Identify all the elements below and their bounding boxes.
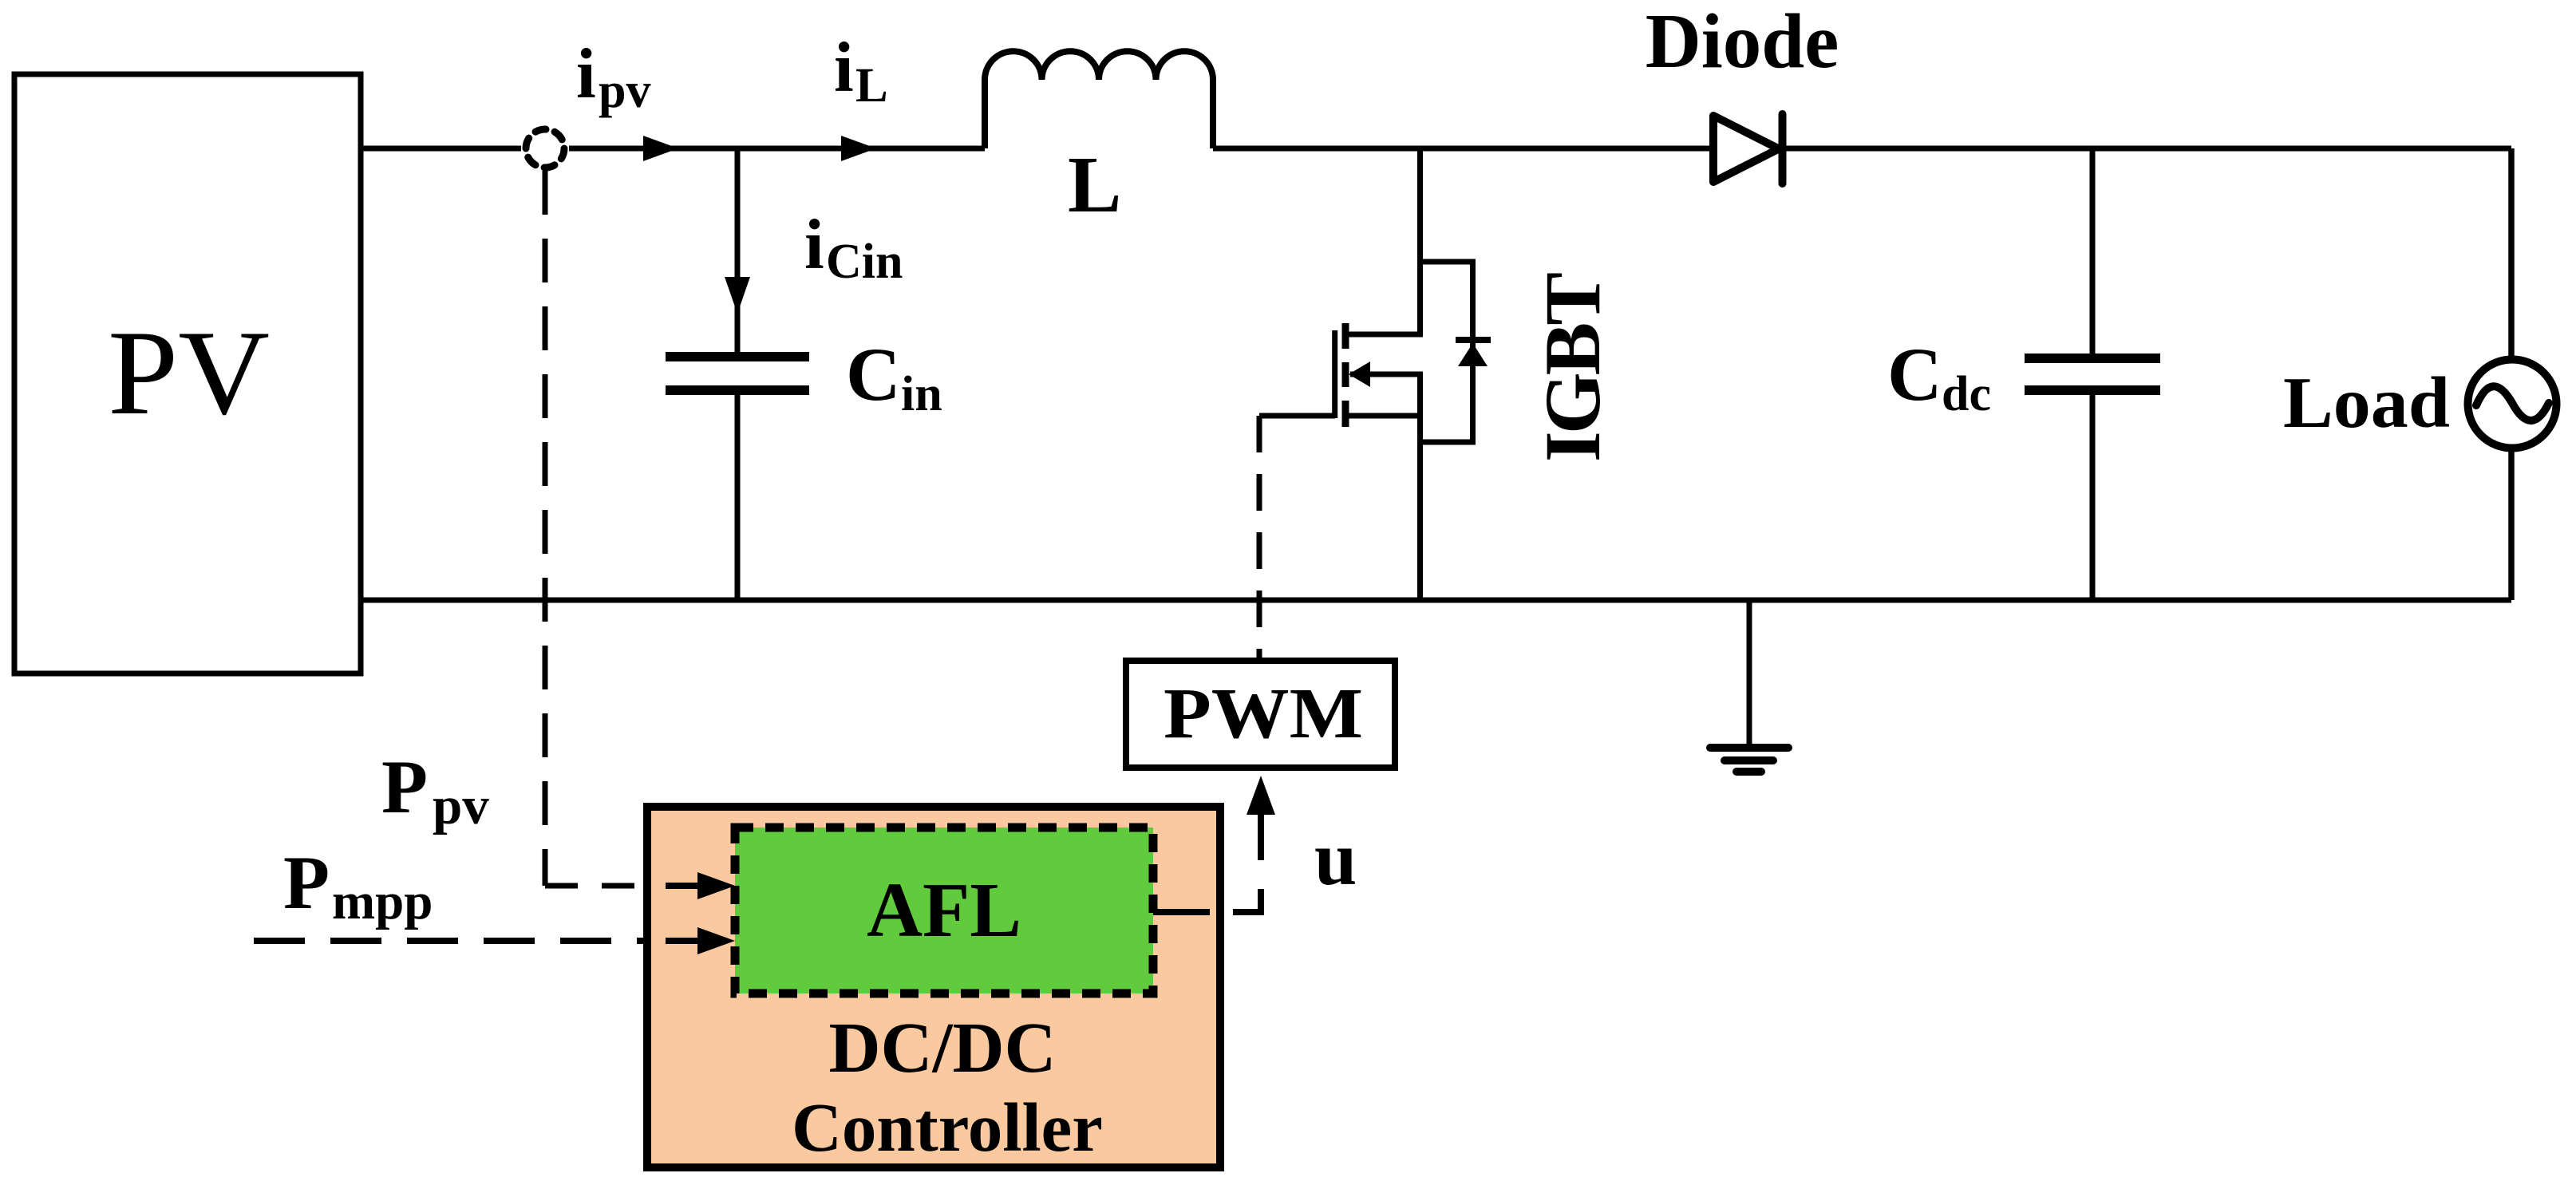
body-diode cathode bar <box>1456 337 1491 343</box>
diode D (main) <box>1713 114 1783 184</box>
svg-text:C: C <box>846 332 901 417</box>
source horizontal <box>1345 413 1423 419</box>
channel bar bottom <box>1342 401 1349 427</box>
svg-text:i: i <box>834 29 854 107</box>
svg-text:i: i <box>804 206 824 284</box>
svg-text:Cin: Cin <box>826 235 903 289</box>
label Cin <box>846 332 942 421</box>
P_mpp dashed line <box>254 938 645 944</box>
svg-text:Load: Load <box>2283 362 2450 443</box>
svg-text:C: C <box>1887 332 1942 417</box>
ground <box>1710 600 1788 772</box>
channel bar middle <box>1342 362 1349 387</box>
body-diode triangle <box>1458 343 1488 366</box>
Cin lower wire <box>735 390 741 600</box>
svg-text:P: P <box>283 840 330 925</box>
current arrow i_L <box>841 136 876 161</box>
svg-text:pv: pv <box>599 64 650 118</box>
capacitor Cdc <box>2025 148 2160 600</box>
label i_pv <box>576 35 650 118</box>
body-diode top link <box>1417 259 1476 265</box>
wire inductor to diode <box>1213 146 1713 152</box>
gate bar <box>1332 330 1337 418</box>
transistor IGBT (MOSFET symbol) <box>1259 148 1491 600</box>
source vertical <box>1417 374 1423 600</box>
gate lead <box>1259 413 1335 419</box>
channel bar top <box>1342 323 1349 349</box>
svg-text:Diode: Diode <box>1646 0 1839 84</box>
wire diode to load <box>1783 146 2511 152</box>
body-diode bottom link <box>1417 440 1476 445</box>
drain horizontal <box>1345 332 1423 338</box>
DC/DC controller box <box>647 807 1220 1167</box>
label i_L <box>834 29 888 113</box>
svg-text:PV: PV <box>108 306 270 440</box>
wire sensor to node A with current arrow i_pv <box>569 136 985 161</box>
svg-text:P: P <box>381 745 428 829</box>
body-diode vertical <box>1470 262 1476 442</box>
P_pv dashed sense line <box>545 171 646 886</box>
svg-text:dc: dc <box>1942 367 1991 421</box>
svg-text:AFL: AFL <box>867 867 1021 953</box>
svg-text:in: in <box>901 367 942 421</box>
P_pv input arrow <box>666 872 735 899</box>
svg-text:PWM: PWM <box>1164 674 1363 753</box>
label P_pv <box>381 745 489 835</box>
AFL output line u <box>1153 776 1275 912</box>
svg-text:mpp: mpp <box>332 873 433 930</box>
svg-text:Controller: Controller <box>792 1088 1103 1166</box>
P_mpp input arrow <box>666 927 735 954</box>
svg-text:L: L <box>1068 140 1121 229</box>
AC source circle (load) <box>2468 360 2557 448</box>
svg-text:u: u <box>1314 816 1357 901</box>
svg-text:pv: pv <box>433 776 489 835</box>
bottom rail <box>361 598 2511 603</box>
wire PV to current sensor <box>361 146 521 152</box>
label P_mpp <box>283 840 433 930</box>
capacitor Cin <box>666 357 809 390</box>
svg-text:L: L <box>855 59 888 113</box>
inductor L <box>985 51 1213 148</box>
label Cdc <box>1887 332 1991 421</box>
svg-text:i: i <box>576 35 596 113</box>
load branch wire <box>2508 148 2515 600</box>
drain vertical <box>1417 148 1423 334</box>
AFL box <box>735 827 1153 993</box>
svg-text:IGBT: IGBT <box>1528 273 1617 462</box>
label i_Cin <box>804 206 903 289</box>
body arrow <box>1349 361 1423 387</box>
svg-text:DC/DC: DC/DC <box>829 1009 1057 1088</box>
node A vertical wire to Cin <box>735 148 741 354</box>
PWM box <box>1126 661 1395 768</box>
PV source box <box>14 74 361 673</box>
current sensor (dashed circle) <box>526 129 564 168</box>
arrow i_Cin (down) <box>725 277 750 314</box>
gate drive dashed line (PWM to gate) <box>1257 416 1262 659</box>
